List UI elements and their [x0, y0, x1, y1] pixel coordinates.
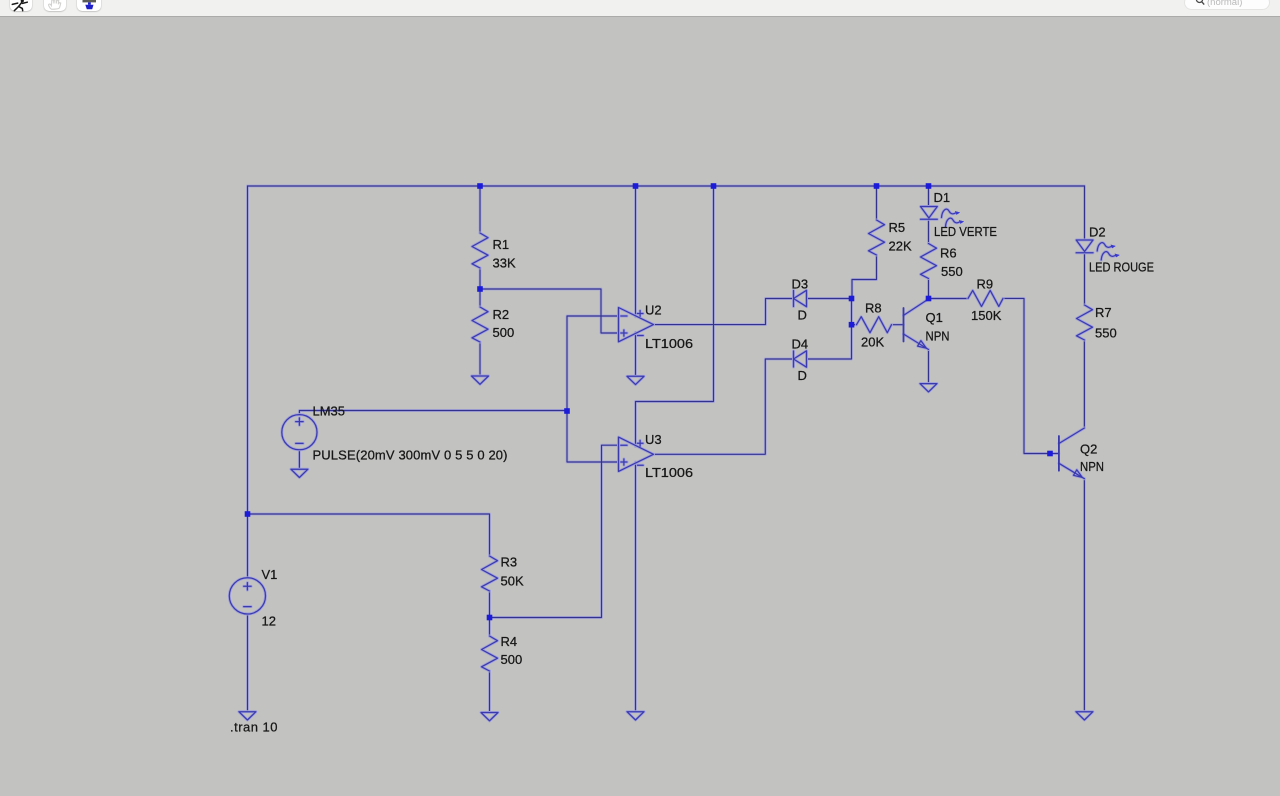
wire U2 V- pin to ground — [635, 332, 637, 376]
wire top rail corner down to D2 — [1084, 186, 1086, 240]
node junction Q2 base — [1047, 451, 1053, 457]
wire U2 V+ pin to top rail — [635, 186, 637, 317]
ground under U2 V- — [627, 376, 644, 384]
wire U3 V+ pin to top rail — [636, 186, 714, 447]
svg-text:12: 12 — [262, 614, 276, 629]
wire V1 bottom to ground — [247, 614, 249, 712]
LED D2 — [1076, 240, 1120, 260]
wire LM35 output to node — [299, 411, 567, 415]
wire R1 bottom to R2 top through divider node — [479, 268, 481, 307]
wire collector node to R9 — [929, 298, 969, 300]
wire U3 output to D4 cathode — [654, 359, 794, 454]
ground under R2 — [472, 376, 489, 384]
resistor R9 — [968, 290, 1003, 306]
svg-text:R6: R6 — [940, 246, 957, 261]
wire R8 right lead to Q1 base — [892, 324, 904, 326]
svg-text:50K: 50K — [501, 574, 524, 589]
svg-text:R2: R2 — [493, 307, 510, 322]
wire Q2 emitter down to ground — [1083, 479, 1085, 712]
wire D3 anode to node — [807, 298, 852, 300]
svg-text:.tran 10: .tran 10 — [230, 720, 278, 735]
node junction U3 supply rail — [711, 183, 717, 189]
wire V1 node to R3 top — [248, 514, 490, 556]
node junction R1-R2 divider — [477, 286, 483, 292]
svg-text:R7: R7 — [1095, 305, 1112, 320]
resistor R8 — [857, 317, 892, 333]
svg-text:500: 500 — [501, 652, 523, 667]
resistor R4 — [482, 636, 498, 671]
node junction V1 plus rail — [245, 511, 251, 517]
LED D1 — [921, 207, 965, 227]
transistor Q2 — [1059, 428, 1085, 479]
svg-text:500: 500 — [493, 325, 515, 340]
svg-text:D2: D2 — [1089, 225, 1106, 240]
wire U3 V- pin down to ground — [635, 462, 637, 712]
node junction R5 top rail — [874, 183, 880, 189]
wire R3 bottom to R4 top — [489, 591, 491, 636]
wire R1 top lead — [479, 186, 481, 233]
svg-text:LED VERTE: LED VERTE — [934, 224, 997, 239]
wire D1 cathode to R6 — [928, 219, 930, 243]
svg-text:D: D — [798, 368, 807, 383]
wire divider node to U2 plus input — [480, 289, 619, 333]
diode D3 — [794, 290, 807, 306]
svg-text:R4: R4 — [501, 634, 518, 649]
resistor R3 — [482, 556, 498, 591]
wire D2 cathode to R7 — [1084, 253, 1086, 305]
svg-text:R9: R9 — [977, 277, 994, 292]
wire R5 bottom jog to D3 node — [852, 255, 877, 299]
svg-text:D1: D1 — [934, 190, 951, 205]
wire LM35 bottom to ground — [298, 450, 300, 469]
svg-text:LM35: LM35 — [313, 404, 346, 419]
svg-text:V1: V1 — [262, 567, 278, 582]
svg-text:33K: 33K — [493, 256, 516, 271]
wire R2 bottom lead to ground — [479, 342, 481, 376]
svg-text:U2: U2 — [645, 303, 662, 318]
wire Q1 emitter to ground — [928, 350, 930, 384]
svg-text:R8: R8 — [865, 301, 882, 316]
node junction Q1 collector R9 — [926, 296, 932, 302]
ground under Q2 emitter — [1076, 712, 1093, 720]
resistor R2 — [472, 307, 488, 342]
diode D4 — [794, 351, 807, 367]
wire D1 top lead from rail — [928, 186, 930, 207]
wire U2 output to D3 cathode — [654, 299, 794, 325]
svg-text:D3: D3 — [792, 277, 809, 292]
ground under U3 V- rail — [627, 712, 644, 720]
resistor R1 — [472, 233, 488, 268]
wire R6 bottom to collector node — [928, 279, 930, 299]
svg-text:Q1: Q1 — [926, 310, 943, 325]
op-amp U3 — [619, 437, 654, 471]
ground under R4 — [481, 713, 498, 721]
wire feedback node to U3 minus input — [490, 445, 619, 617]
node junction D3 anode R5 — [849, 296, 855, 302]
svg-text:PULSE(20mV 300mV 0 5 5 0 20): PULSE(20mV 300mV 0 5 5 0 20) — [313, 448, 508, 463]
svg-text:22K: 22K — [889, 239, 912, 254]
ground under Q1 emitter — [920, 384, 937, 392]
node junction D1 top rail — [926, 183, 932, 189]
svg-text:LED ROUGE: LED ROUGE — [1089, 260, 1154, 275]
wire D4 anode up to R8 node — [807, 299, 852, 360]
op-amp U2 — [619, 308, 654, 342]
svg-text:D: D — [798, 308, 807, 323]
svg-text:LT1006: LT1006 — [645, 336, 693, 351]
ground under LM35 — [291, 469, 308, 477]
resistor R6 — [921, 244, 937, 279]
wire node to U2 minus input — [567, 316, 619, 411]
wire left rail down to V1 node — [247, 186, 249, 514]
node junction LM35 output — [564, 408, 570, 414]
svg-text:150K: 150K — [971, 308, 1002, 323]
voltage source V1 — [229, 578, 265, 614]
node junction R3-R4 feedback — [487, 615, 493, 621]
svg-text:550: 550 — [941, 264, 963, 279]
svg-text:LT1006: LT1006 — [645, 465, 693, 480]
resistor R7 — [1077, 305, 1093, 340]
svg-text:NPN: NPN — [926, 329, 950, 344]
transistor Q1 — [904, 299, 929, 350]
svg-text:550: 550 — [1095, 326, 1117, 341]
node junction R1 top rail — [477, 183, 483, 189]
svg-text:Q2: Q2 — [1080, 442, 1097, 457]
ground under V1 — [239, 712, 256, 720]
voltage source LM35 — [282, 415, 317, 450]
wire V1 node to V1 top — [247, 514, 249, 578]
wire node to U3 plus input — [567, 411, 619, 463]
svg-text:R5: R5 — [889, 220, 906, 235]
wire top supply rail — [248, 185, 1085, 187]
svg-text:D4: D4 — [792, 337, 809, 352]
resistor R5 — [869, 220, 885, 255]
svg-text:R3: R3 — [501, 555, 518, 570]
svg-text:NPN: NPN — [1080, 459, 1104, 474]
svg-text:R1: R1 — [493, 237, 510, 252]
node junction R8 D4 — [849, 322, 855, 328]
node junction U2 supply rail — [633, 183, 639, 189]
wire R4 bottom to ground — [489, 671, 491, 712]
wire R5 top lead — [876, 186, 878, 220]
wire R7 bottom to Q2 collector — [1083, 340, 1085, 428]
wire R8 left lead — [852, 324, 857, 326]
svg-text:20K: 20K — [861, 335, 884, 350]
svg-text:U3: U3 — [645, 432, 662, 447]
wire R9 right lead down to Q2 base — [1003, 298, 1059, 453]
